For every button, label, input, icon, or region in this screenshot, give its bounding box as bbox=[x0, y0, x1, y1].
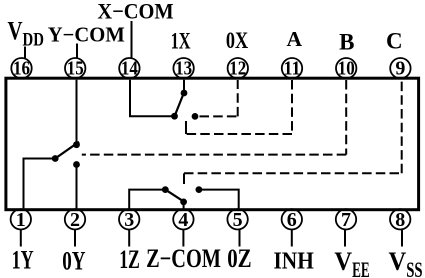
bottom pin circle 4 bbox=[173, 209, 193, 231]
wire dashed B control horizontal bbox=[82, 154, 346, 156]
svg-text:2: 2 bbox=[70, 209, 80, 231]
svg-text:1X: 1X bbox=[171, 28, 191, 53]
switch Z blade bbox=[165, 190, 185, 203]
wire dashed A control vertical from pin11 bbox=[291, 80, 293, 134]
label VEE (pin 7) bbox=[334, 247, 369, 278]
leader tick pin 16 bbox=[24, 47, 26, 59]
svg-text:14: 14 bbox=[121, 58, 138, 80]
node 1Y contact dot bbox=[52, 155, 59, 162]
label VDD (pin 16) bbox=[8, 16, 44, 50]
wire dashed A control horizontal bbox=[186, 133, 292, 135]
svg-text:10: 10 bbox=[338, 58, 355, 80]
svg-text:B: B bbox=[339, 30, 354, 55]
svg-text:1Z: 1Z bbox=[119, 245, 140, 274]
svg-text:6: 6 bbox=[287, 209, 297, 231]
leader tick pin 14 bbox=[131, 21, 133, 58]
svg-text:4: 4 bbox=[178, 209, 188, 231]
bottom leader ticks pins 1-8 bbox=[20, 230, 22, 247]
wire dashed B control vertical from pin10 bbox=[345, 80, 347, 155]
leader tick pin 15 bbox=[76, 44, 78, 59]
svg-text:9: 9 bbox=[395, 58, 405, 80]
bottom pin circle 2 bbox=[65, 209, 85, 231]
wire 1Z from pin3 bbox=[129, 190, 165, 209]
svg-text:7: 7 bbox=[341, 209, 351, 231]
node Z pivot dot bbox=[180, 199, 187, 206]
top pin circle 15 bbox=[65, 58, 85, 80]
node 0Z contact dot bbox=[196, 186, 203, 193]
svg-text:11: 11 bbox=[284, 58, 301, 80]
wire dashed A control stub at switch X bbox=[185, 121, 187, 134]
node Y-COM dot bbox=[73, 141, 80, 148]
wire pin14 X-COM to pivot bbox=[130, 80, 175, 117]
svg-text:0Z: 0Z bbox=[227, 244, 251, 273]
svg-text:V: V bbox=[389, 247, 407, 276]
top pin circle 9 bbox=[390, 58, 410, 80]
node 1Z contact dot bbox=[162, 186, 169, 193]
switch Y blade bbox=[55, 142, 79, 159]
bottom pin circle 7 bbox=[336, 209, 356, 231]
bottom pin circle 6 bbox=[282, 209, 302, 231]
svg-text:Y−COM: Y−COM bbox=[48, 23, 125, 47]
svg-text:12: 12 bbox=[229, 58, 246, 80]
svg-text:C: C bbox=[386, 28, 403, 53]
wire pin15 Y-COM bbox=[76, 80, 78, 145]
top pin circle 12 bbox=[228, 58, 248, 80]
switch X blade bbox=[175, 92, 185, 117]
node 0Y contact dot bbox=[73, 161, 80, 168]
node 0X contact dot bbox=[192, 113, 199, 120]
svg-text:15: 15 bbox=[67, 58, 84, 80]
wire pin13 1X bbox=[183, 80, 185, 93]
svg-text:8: 8 bbox=[395, 209, 405, 231]
wire dashed C control horizontal bbox=[184, 172, 402, 174]
svg-text:EE: EE bbox=[352, 257, 370, 278]
bottom pin circle 8 bbox=[390, 209, 410, 231]
svg-text:1Y: 1Y bbox=[12, 246, 34, 275]
svg-text:Z−COM: Z−COM bbox=[146, 244, 221, 273]
svg-text:5: 5 bbox=[233, 209, 243, 231]
top pin circle 11 bbox=[282, 58, 302, 80]
wire 0Y to pin2 bbox=[76, 165, 78, 209]
top pin circle 16 bbox=[11, 58, 31, 80]
svg-text:0X: 0X bbox=[226, 28, 249, 53]
wire 1Y to pin1 bbox=[24, 159, 56, 209]
top pin circle 14 bbox=[119, 58, 139, 80]
svg-text:16: 16 bbox=[13, 58, 30, 80]
wire dashed 0X to pin12 horizontal bbox=[200, 115, 238, 117]
svg-text:3: 3 bbox=[124, 209, 134, 231]
bottom pin circle 3 bbox=[119, 209, 139, 231]
label VSS (pin 8) bbox=[389, 247, 423, 278]
svg-text:0Y: 0Y bbox=[62, 246, 85, 275]
svg-text:A: A bbox=[287, 27, 303, 51]
svg-text:V: V bbox=[334, 247, 352, 276]
node X pivot dot bbox=[171, 113, 178, 120]
IC body box bbox=[6, 78, 419, 210]
svg-text:X−COM: X−COM bbox=[97, 0, 174, 24]
wire dashed C control stub at switch Z bbox=[183, 173, 185, 184]
bottom pin circle 5 bbox=[227, 209, 247, 231]
svg-text:13: 13 bbox=[175, 58, 192, 80]
svg-text:INH: INH bbox=[274, 248, 315, 274]
wire dashed C control vertical from pin9 bbox=[401, 80, 403, 173]
node 1X contact dot bbox=[181, 90, 188, 97]
top pin circle 10 bbox=[336, 58, 356, 80]
bottom pin circle 1 bbox=[11, 209, 31, 231]
wire 0Z to pin5 bbox=[199, 190, 239, 209]
svg-text:SS: SS bbox=[406, 257, 422, 278]
top pin circle 13 bbox=[173, 58, 193, 80]
wire Z-COM pivot to pin4 bbox=[183, 202, 185, 209]
wire dashed 0X to pin12 vertical bbox=[237, 80, 239, 116]
svg-text:1: 1 bbox=[16, 209, 26, 231]
svg-text:V: V bbox=[8, 16, 23, 45]
